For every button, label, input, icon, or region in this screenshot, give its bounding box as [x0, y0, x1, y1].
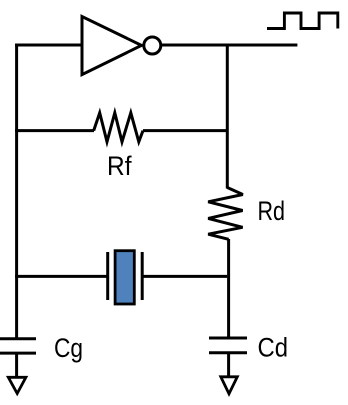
ground (left, below Cg) — [8, 377, 26, 393]
wire: Rf horizontal left lead — [15, 129, 94, 132]
capacitor Cd bottom plate — [209, 351, 247, 354]
resistor Rd zigzag — [208, 188, 243, 240]
svg-text:Rf: Rf — [107, 151, 132, 181]
wire: Cd bottom plate to ground — [227, 353, 230, 377]
wire: crystal horizontal left lead — [15, 275, 108, 278]
wire: right vertical from Rd down to Cd — [227, 239, 230, 339]
wire: Rf horizontal right lead to right rail — [143, 129, 226, 132]
square wave output symbol — [267, 13, 338, 29]
wire: Cg bottom plate to ground — [15, 353, 18, 377]
wire: left vertical rail — [15, 44, 18, 341]
crystal X1 right electrode plate — [141, 252, 144, 300]
ground (right, below Cd) — [221, 377, 238, 394]
resistor Rf zigzag — [94, 113, 143, 142]
svg-text:Cd: Cd — [258, 333, 289, 363]
capacitor Cg bottom plate — [0, 352, 36, 355]
inverter output bubble — [144, 37, 161, 54]
wire: crystal horizontal right lead to right rail — [142, 275, 227, 278]
wire: input horizontal from left rail to inverter — [15, 44, 83, 47]
inverter U1 triangle — [82, 17, 142, 75]
crystal X1 body (blue rectangle) — [115, 251, 134, 304]
svg-text:Rd: Rd — [258, 196, 286, 226]
capacitor Cg top plate — [0, 337, 36, 340]
capacitor Cd top plate — [209, 337, 247, 340]
svg-text:Cg: Cg — [54, 333, 83, 363]
crystal X1 left electrode plate — [106, 252, 109, 300]
wire: output horizontal — [162, 44, 298, 47]
wire: right vertical from output node down to Rd — [226, 44, 229, 189]
